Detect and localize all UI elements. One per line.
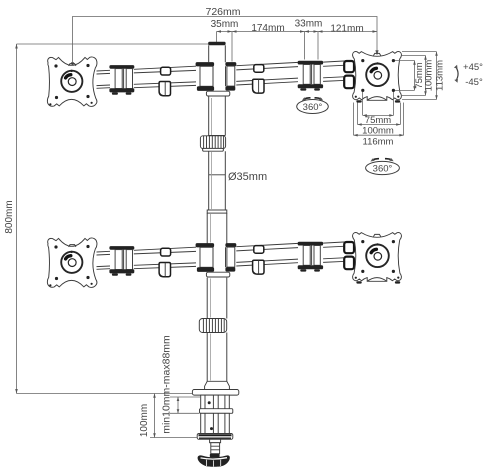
arrow 726 right [375,50,378,55]
elbow joint 2 [298,61,323,91]
svg-text:360°: 360° [303,102,323,113]
ext top 800 [17,43,209,45]
ext 35mm left [216,32,218,43]
ext bottom 800 [17,393,194,395]
dimension 116mm h [354,134,404,136]
cable clip 1 hook divider [164,82,166,96]
right plate bottom arch [367,97,387,101]
cable clip 2 hook divider [258,80,260,93]
right plate feet [356,100,361,102]
360 ellipse 1 [297,100,329,114]
pole lower tube to second clamp [207,213,227,243]
clamp middle shelf [200,409,233,414]
plate hinge upper [344,61,354,72]
dimension 100mm v [425,56,427,96]
plate dark arc [66,75,71,78]
rotation annotation under right plate [366,158,400,175]
right plate centre ring [366,64,389,87]
clamp bottom jaw [197,434,233,440]
ribbed knob 2 [199,319,226,333]
clamp lower hole [210,427,213,430]
ext 75 left [362,92,364,115]
svg-text:100mm: 100mm [424,60,435,92]
ext 75 bottom [395,89,415,91]
svg-text:800mm: 800mm [4,200,15,233]
svg-text:-45°: -45° [465,77,483,88]
svg-text:100mm: 100mm [139,404,150,437]
svg-text:116mm: 116mm [363,137,394,148]
DESK CLAMP [192,390,238,467]
elbow joint 1 [109,65,134,95]
tube plate-elbow1 [97,70,111,88]
ext 33/121 [317,32,319,60]
ext 75 top [395,60,415,62]
pole diameter label [228,171,267,183]
right plate inner hub [374,72,382,80]
svg-text:+45°: +45° [463,62,483,73]
ext 174/33 [304,32,306,60]
clamp star knob [198,455,230,466]
dimension chain line [217,31,378,33]
clamp upper hole [208,401,211,404]
LOWER-ARM assembly duplicate [47,233,401,288]
svg-text:360°: 360° [373,164,393,175]
ext 35/174 [231,32,233,62]
right VESA plate [353,52,402,103]
ext minmax top [170,396,200,398]
svg-text:113mm: 113mm [435,60,446,91]
ext 113 bottom [402,99,437,101]
plate top tab [69,64,76,66]
cable clip 1 hook [159,82,170,96]
ext 100 left [357,103,359,125]
ext 100 bottom clamp [150,437,197,439]
clamp screw rod lower [213,413,218,433]
ext 116 left [353,103,355,136]
right plate dark arc [371,68,376,71]
cable clip 2 strap [254,65,264,73]
knob hub [210,454,220,458]
dimension 75mm h [363,114,394,116]
rotation annotation near pole [297,97,329,113]
sleeve joint [207,210,227,213]
pole clamp collar [206,91,229,96]
ext 100 bottom [402,95,426,97]
clamp lower bracket [201,413,230,433]
DIMENSIONS RIGHT PLATE HORIZONTAL [354,92,404,148]
svg-text:min10mm-max88mm: min10mm-max88mm [161,335,173,434]
dimension minmax [177,397,179,413]
pole clamp foot left [197,86,214,91]
POLE [199,42,229,390]
svg-text:121mm: 121mm [330,24,363,35]
360 ellipse 2 [366,161,400,174]
clamp screw shaft [210,439,221,453]
knob highlight [201,458,228,459]
DIMENSIONS-TOP [71,6,379,68]
right plate screw holes [361,59,364,62]
ext 113 top [402,51,437,53]
clamp top plate [192,390,238,396]
right plate tip dots [355,96,357,98]
right plate top tab [373,53,380,55]
CLAMP DIMENSIONS [139,335,200,438]
TOP-ARM assembly [47,52,401,107]
cable clip 1 shade [158,88,164,96]
plate screw holes [54,64,57,67]
svg-text:174mm: 174mm [251,23,284,34]
svg-text:726mm: 726mm [205,6,240,18]
cable clip 2 shade [252,85,258,93]
pole clamp flange top left [196,62,215,66]
svg-text:33mm: 33mm [295,19,323,30]
plate centre ring [61,71,82,92]
plate ring screw dot [70,70,72,72]
tube clamp-elbow2 [236,62,298,85]
dimension 100mm clamp [154,394,156,438]
pole base flare [205,381,230,389]
clamp upper bracket [201,395,230,411]
pole top cap [208,42,225,45]
tube elbow1-clamp [134,66,196,88]
tube elbow2-hinge [323,61,346,82]
pole bottom segment [207,333,227,382]
plate inner hub [68,78,76,86]
clamp screw rod upper [213,395,218,409]
tilt annotation [454,62,483,88]
plate tip dots [49,103,51,105]
ribbed ring 1 [200,136,225,151]
dimension 75mm v [414,61,416,91]
pole below top clamp [209,96,226,135]
pole clamp body [200,66,235,86]
cable clip 2 hook [253,79,264,93]
DIMENSION-800 [4,44,209,394]
plate hinge lower [344,76,354,89]
dimension 726mm line [73,17,378,64]
DIMENSIONS RIGHT PLATE VERTICAL [395,52,446,100]
pole middle segment [209,151,226,210]
svg-text:35mm: 35mm [211,19,239,30]
ext minmax bottom [170,412,199,414]
rot1 arrows [304,98,311,99]
rot2 arrows [372,159,379,161]
ext 75 right [393,92,395,115]
dimension 800mm line [16,44,18,394]
pole highlight lines [210,98,211,381]
pole clamp foot right [225,86,235,90]
pole between clamp2 and knob [207,278,227,319]
arrow 726 left [71,62,74,67]
ext 100 top [402,55,426,57]
pole clamp flange top right [225,62,236,66]
left VESA plate [47,57,97,106]
dimension 100mm h [358,124,401,126]
tilt arc [456,67,459,82]
ext 116 right [403,103,405,136]
ext 100 right [399,103,401,125]
pole upper segment [209,45,226,62]
cable clip 1 strap [161,67,171,75]
chain arrows [217,30,222,32]
right plate ring screw dot [376,62,378,64]
dimension 113mm v [436,52,438,100]
svg-text:Ø35mm: Ø35mm [228,171,267,183]
